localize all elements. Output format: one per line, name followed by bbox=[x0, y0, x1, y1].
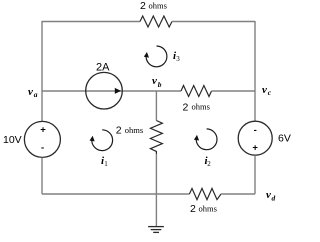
voltage source V1 10V bbox=[24, 121, 60, 157]
wire right lower bbox=[254, 155, 256, 194]
ground bbox=[148, 227, 164, 233]
wire center vertical lower bbox=[155, 154, 157, 226]
wire bottom-right segment bbox=[221, 193, 255, 195]
current source I1 2A bbox=[86, 72, 123, 109]
svg-text:a: a bbox=[34, 90, 38, 99]
svg-text:2: 2 bbox=[207, 160, 211, 168]
wire top-right segment bbox=[172, 21, 255, 23]
svg-text:2: 2 bbox=[140, 0, 146, 12]
resistor R-center 2 ohms (vertical) bbox=[150, 121, 162, 155]
mesh current i1 loop bbox=[90, 130, 113, 151]
svg-text:-: - bbox=[254, 125, 257, 136]
resistor R-top 2 ohms bbox=[140, 16, 172, 27]
wire left upper bbox=[41, 21, 43, 122]
svg-text:2: 2 bbox=[190, 203, 196, 215]
resistor R-mid 2 ohms (horizontal) bbox=[181, 86, 212, 97]
svg-text:ohms: ohms bbox=[125, 125, 143, 135]
svg-text:v: v bbox=[262, 84, 267, 96]
resistor R-bot 2 ohms bbox=[189, 188, 221, 199]
wire bottom-left segment bbox=[42, 193, 189, 195]
svg-text:v: v bbox=[152, 75, 157, 87]
svg-text:v: v bbox=[266, 189, 271, 201]
svg-text:1: 1 bbox=[104, 160, 108, 168]
svg-text:2A: 2A bbox=[96, 62, 110, 74]
svg-text:10V: 10V bbox=[3, 134, 22, 146]
svg-text:d: d bbox=[272, 193, 276, 202]
svg-text:2: 2 bbox=[183, 102, 189, 114]
svg-text:ohms: ohms bbox=[192, 102, 210, 112]
svg-text:ohms: ohms bbox=[149, 1, 167, 11]
svg-text:+: + bbox=[40, 125, 46, 136]
svg-text:2: 2 bbox=[116, 124, 122, 136]
svg-text:+: + bbox=[252, 143, 258, 154]
wire middle-right segment bbox=[212, 90, 256, 92]
wire center vertical upper bbox=[155, 91, 157, 121]
svg-text:3: 3 bbox=[176, 55, 180, 63]
svg-text:ohms: ohms bbox=[199, 204, 217, 214]
mesh current i2 loop bbox=[194, 129, 217, 150]
wire top-left segment bbox=[42, 21, 140, 23]
wire middle-left segment bbox=[42, 90, 181, 92]
svg-text:6V: 6V bbox=[278, 133, 291, 145]
svg-text:v: v bbox=[28, 86, 33, 98]
svg-text:-: - bbox=[41, 143, 44, 154]
voltage source V2 6V bbox=[238, 121, 272, 155]
wire left lower bbox=[41, 157, 43, 194]
svg-text:b: b bbox=[158, 80, 162, 89]
mesh current i3 loop bbox=[144, 46, 167, 67]
wire right upper bbox=[254, 21, 256, 121]
